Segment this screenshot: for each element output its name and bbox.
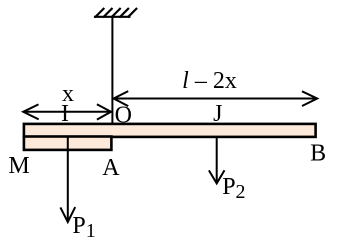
force arrow P1 — [60, 138, 75, 223]
svg-text:A: A — [102, 155, 120, 181]
lower bar M-A — [24, 137, 112, 150]
support rod from ceiling to pivot O — [111, 17, 113, 124]
svg-text:B: B — [310, 141, 326, 167]
svg-text:P2: P2 — [222, 174, 245, 203]
force arrow P2 — [209, 138, 225, 183]
dimension arrow x — [23, 104, 111, 119]
fixed ceiling support line — [94, 16, 131, 18]
svg-text:M: M — [8, 153, 29, 179]
main beam M-B — [24, 124, 316, 137]
dimension arrow l-2x — [114, 91, 318, 106]
ceiling hatch strokes — [95, 8, 137, 18]
svg-text:P1: P1 — [72, 213, 95, 242]
svg-text:l – 2x: l – 2x — [182, 68, 237, 94]
